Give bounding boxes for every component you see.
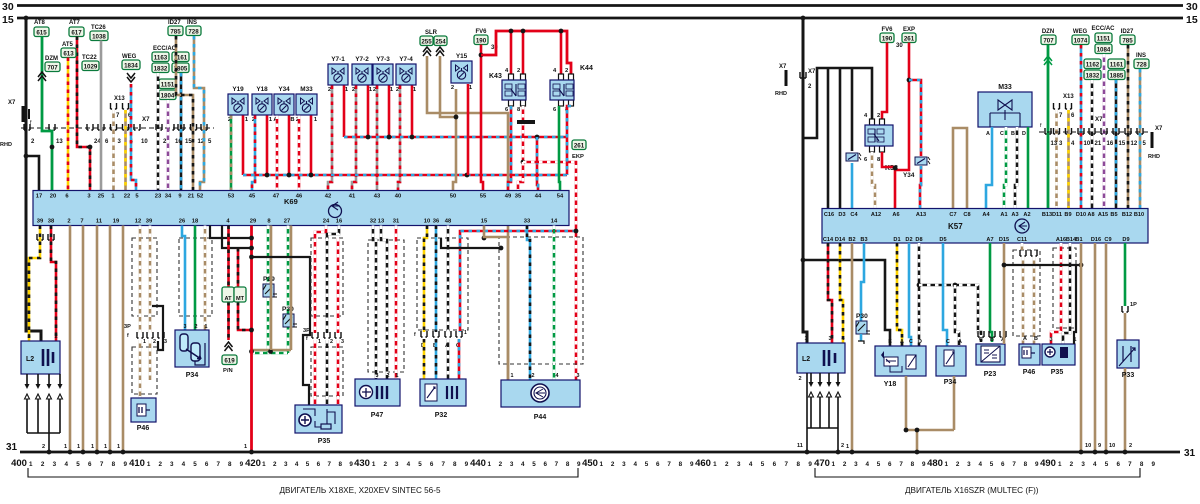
wire tan P29 ground <box>270 226 273 351</box>
svg-text:32: 32 <box>370 219 376 225</box>
svg-text:E: E <box>888 339 892 345</box>
wire black-cyan ECC to K69-9 <box>180 73 183 191</box>
svg-text:13: 13 <box>1051 141 1058 147</box>
svg-text:2: 2 <box>387 373 390 379</box>
svg-text:B9: B9 <box>1064 212 1071 218</box>
node junction EXP branch <box>907 78 912 83</box>
wire black to diode <box>851 68 854 151</box>
svg-text:3: 3 <box>1050 337 1053 343</box>
svg-text:AT5: AT5 <box>62 42 74 48</box>
svg-text:1: 1 <box>91 444 94 450</box>
svg-text:10: 10 <box>1109 443 1115 449</box>
wire tan-cyan INS to B10 <box>1139 69 1142 209</box>
svg-text:617: 617 <box>71 29 82 36</box>
svg-text:C16: C16 <box>824 212 834 218</box>
node junction ground 4 <box>108 450 113 455</box>
connector X7 dashed line left <box>21 127 214 129</box>
svg-text:1: 1 <box>143 339 146 345</box>
shielded cable P34 left <box>179 238 212 316</box>
svg-text:P35: P35 <box>1051 369 1064 376</box>
shielded cable P35 upper <box>311 238 343 316</box>
svg-text:2: 2 <box>273 461 277 468</box>
svg-text:12: 12 <box>135 219 141 225</box>
svg-text:WEG: WEG <box>122 54 137 60</box>
svg-text:430: 430 <box>354 458 370 469</box>
wire black-white K69-16 to P35 <box>327 226 339 334</box>
label box ECC 1832r <box>1084 70 1101 80</box>
wire green AT8 to K69-20 <box>42 37 52 192</box>
wire green K69-18 to P34-2 <box>194 226 197 331</box>
wire green-white K69-27 P30 <box>287 226 290 354</box>
pin symbols below K69 left <box>37 234 54 240</box>
wire gray-red Y7-1 to K69-42 <box>328 86 332 192</box>
wire gray TC26 to K69-25 <box>100 41 103 192</box>
arrow down WEG <box>127 73 135 82</box>
svg-text:A8: A8 <box>1087 212 1094 218</box>
svg-text:AT8: AT8 <box>34 20 46 26</box>
label box FV6 190 <box>474 35 488 45</box>
svg-text:4: 4 <box>749 461 753 468</box>
label box FV6 right <box>880 33 894 43</box>
svg-text:P33: P33 <box>1122 372 1135 379</box>
wire blue-red Y18-2 to K69-45 <box>252 116 255 192</box>
shielded cable P46 lower <box>132 347 157 394</box>
svg-text:21: 21 <box>188 194 195 200</box>
svg-text:B: B <box>290 117 294 123</box>
wire yellow-black to P32 box <box>423 339 426 379</box>
svg-text:440: 440 <box>470 458 486 469</box>
node junction red MT <box>249 328 254 333</box>
svg-text:D3: D3 <box>838 212 845 218</box>
wire red-white Y34-A to K69-47 <box>276 116 279 192</box>
svg-text:Y7-1: Y7-1 <box>331 56 345 63</box>
node junction tan right c <box>915 450 920 455</box>
svg-text:33: 33 <box>524 219 531 225</box>
svg-text:785: 785 <box>170 28 181 35</box>
wire red-white to P35 box b <box>337 340 340 405</box>
wire red-white K43-8 net <box>522 106 525 162</box>
svg-text:44: 44 <box>535 194 542 200</box>
svg-text:3: 3 <box>284 461 288 468</box>
svg-text:2: 2 <box>565 68 568 74</box>
svg-text:9: 9 <box>465 461 469 468</box>
svg-text:P/N: P/N <box>223 368 233 374</box>
svg-text:52: 52 <box>197 194 203 200</box>
svg-text:4: 4 <box>295 461 299 468</box>
label box ECC 1084 <box>1095 44 1112 54</box>
svg-text:3: 3 <box>737 461 741 468</box>
svg-text:D5: D5 <box>939 237 946 243</box>
wire green K44-6 to K69-54 <box>559 106 560 191</box>
svg-text:5: 5 <box>1105 461 1109 468</box>
svg-text:X7: X7 <box>1155 126 1163 132</box>
svg-text:C14: C14 <box>823 237 834 243</box>
svg-text:1: 1 <box>29 461 33 468</box>
svg-text:2: 2 <box>611 461 615 468</box>
svg-text:39: 39 <box>37 219 44 225</box>
wire black-white K69-48 P32-A <box>447 226 450 333</box>
wire red-blue Y34 to K57-A13 <box>920 166 921 209</box>
svg-text:31: 31 <box>393 219 400 225</box>
wire black-white B14 to P35r-2 <box>1063 243 1070 344</box>
svg-text:1: 1 <box>372 461 376 468</box>
svg-text:6: 6 <box>317 461 321 468</box>
wire black-white ECC to K69-23 <box>157 73 160 191</box>
wire red Y19-1 to rail <box>242 116 245 176</box>
svg-text:1151: 1151 <box>1097 35 1111 42</box>
relay K58 <box>865 119 893 152</box>
svg-text:3: 3 <box>828 336 831 342</box>
svg-text:2: 2 <box>725 461 729 468</box>
svg-text:15: 15 <box>1119 141 1126 147</box>
bus 30 top <box>17 4 1183 7</box>
node junction rail137 x368 <box>366 135 371 140</box>
wire purple-white ECC to A15 <box>1103 54 1106 209</box>
svg-text:1: 1 <box>39 334 42 340</box>
wire tan ground 4 to bus31 <box>109 226 112 453</box>
wire tan-white 3P-1 to P46 <box>139 340 142 399</box>
svg-text:P32: P32 <box>435 412 448 419</box>
EGR valve Y18 right <box>875 339 926 376</box>
label box ECC 1805 <box>172 63 189 73</box>
node junction B2 ground <box>850 450 855 455</box>
svg-text:P44: P44 <box>534 414 547 421</box>
wire blue-red feed P32-C <box>460 231 576 332</box>
svg-text:2: 2 <box>328 87 331 93</box>
label box ECC 1161 <box>172 52 189 62</box>
wire tan-white K58-6 to A12 <box>872 152 875 209</box>
svg-text:30: 30 <box>1186 1 1198 13</box>
node junction red row1 <box>249 236 254 241</box>
svg-text:6: 6 <box>1116 461 1120 468</box>
arrow up DZN <box>1044 56 1052 65</box>
wire tan-white to P34-1 <box>204 226 207 331</box>
svg-text:1074: 1074 <box>1074 37 1088 44</box>
svg-text:420: 420 <box>245 458 261 469</box>
svg-text:25: 25 <box>98 194 105 200</box>
arrow up SLR1 <box>423 47 431 56</box>
svg-text:RHD: RHD <box>0 142 12 148</box>
wire gray-red Y7-2 to K69-41 <box>352 86 356 192</box>
sensor P34 left <box>175 324 209 367</box>
node junction FV6 tap <box>479 53 484 58</box>
svg-text:2: 2 <box>383 461 387 468</box>
wire tan P30 ground <box>290 226 293 351</box>
svg-text:AT7: AT7 <box>69 20 81 26</box>
label box SLR 254 <box>434 36 447 46</box>
wire black-white D8 to Y18-D <box>918 243 921 346</box>
wire red-white A16 to P35r-3 <box>1051 243 1061 344</box>
svg-text:9: 9 <box>808 461 812 468</box>
wire blue K69-26 to P34-3 <box>182 226 185 331</box>
svg-text:255: 255 <box>421 38 432 45</box>
svg-text:2: 2 <box>843 461 847 468</box>
svg-text:7: 7 <box>1012 461 1016 468</box>
wire tan-black ID27 to B12 <box>1127 45 1130 209</box>
wire yellow-black K69-10 P32-D <box>424 226 427 333</box>
wire red-white fuel pump feed <box>523 162 576 381</box>
svg-text:53: 53 <box>228 194 235 200</box>
svg-text:3: 3 <box>1081 461 1085 468</box>
svg-text:2: 2 <box>42 444 45 450</box>
wire tan ground 2 to bus31 <box>82 226 85 453</box>
stub connector P30 <box>858 341 864 344</box>
svg-text:1: 1 <box>945 461 949 468</box>
svg-text:SLR: SLR <box>425 30 438 36</box>
svg-text:261: 261 <box>574 142 585 149</box>
svg-text:1: 1 <box>846 444 849 450</box>
svg-text:C: C <box>909 339 913 345</box>
label box DZN 707 <box>1041 35 1056 45</box>
wire blue-red WEG to K69-5 <box>131 84 136 191</box>
svg-text:3: 3 <box>376 373 379 379</box>
svg-text:X13: X13 <box>114 96 125 102</box>
relay K44 <box>550 74 574 106</box>
svg-text:EXP: EXP <box>903 27 915 33</box>
svg-text:10: 10 <box>424 219 430 225</box>
wire red K43-4 up <box>510 31 513 74</box>
svg-text:A7: A7 <box>986 237 993 243</box>
shielded cable P46 upper <box>132 238 157 316</box>
connector X7 dashed line right <box>1039 131 1148 133</box>
svg-text:9: 9 <box>1098 443 1101 449</box>
wire tan-yellow X13r to B9 <box>1067 110 1070 209</box>
wire blue B3 to P30 <box>861 243 864 321</box>
wire tan-white K69-39 to 3P-2 <box>149 226 152 334</box>
solenoid valve Y7-2 <box>352 56 373 93</box>
wire blue diode to K57-C4 <box>851 163 854 209</box>
svg-text:10: 10 <box>1085 443 1091 449</box>
svg-text:23: 23 <box>155 194 162 200</box>
wire tan D16 to bus31 <box>1094 243 1097 452</box>
wire red K43-2 up <box>522 31 525 74</box>
solenoid valve Y18 <box>252 86 273 123</box>
svg-text:1029: 1029 <box>84 63 98 70</box>
solenoid valve Y7-4 <box>396 56 417 93</box>
solenoid valve Y15 <box>451 53 473 91</box>
connector X7 symbol far right <box>1148 126 1163 160</box>
svg-text:7: 7 <box>216 461 220 468</box>
svg-text:M33: M33 <box>300 86 313 93</box>
svg-text:2: 2 <box>517 68 520 74</box>
svg-text:18: 18 <box>192 219 199 225</box>
wire blue-red K43-6 to K69-49 <box>508 106 511 191</box>
svg-text:43: 43 <box>374 194 381 200</box>
arrow up SLR2 <box>436 47 444 56</box>
node junction rail175 x467 <box>465 173 470 178</box>
svg-text:1: 1 <box>117 444 120 450</box>
diagnostic plug P46 right <box>1019 336 1040 365</box>
svg-text:3: 3 <box>395 461 399 468</box>
wire red-black K69-4 via AT <box>227 226 230 288</box>
svg-text:15: 15 <box>481 219 488 225</box>
svg-text:P34: P34 <box>944 379 957 386</box>
arrow up P/N <box>225 342 233 351</box>
svg-text:A: A <box>986 131 990 137</box>
wire blue-red rail to K69-44 <box>537 137 538 191</box>
svg-text:3: 3 <box>53 461 57 468</box>
wire tan-white pair b <box>1033 257 1036 344</box>
symbol diode Y34 right <box>915 157 930 165</box>
svg-text:8: 8 <box>911 461 915 468</box>
wire tan B2 to bus31 <box>851 243 854 452</box>
svg-text:5: 5 <box>193 461 197 468</box>
svg-text:ECC/AC: ECC/AC <box>1091 26 1115 32</box>
wire green-white M33-C to A1 <box>1004 127 1006 209</box>
svg-text:21: 21 <box>1095 141 1102 147</box>
svg-text:3: 3 <box>170 461 174 468</box>
connector X7 bracket right <box>800 69 816 90</box>
svg-text:6: 6 <box>430 461 434 468</box>
svg-text:B: B <box>1034 336 1038 342</box>
solenoid valve M33 <box>296 86 318 123</box>
svg-text:1885: 1885 <box>1110 72 1124 79</box>
wire black branch to K58/K57 <box>803 68 872 138</box>
svg-text:3: 3 <box>27 334 30 340</box>
svg-text:8: 8 <box>338 461 342 468</box>
label box INS <box>186 26 201 36</box>
svg-text:A12: A12 <box>871 212 881 218</box>
svg-text:P29: P29 <box>263 276 275 283</box>
node junction bus15 left <box>24 16 29 21</box>
label box TC22 <box>82 61 99 71</box>
svg-text:2: 2 <box>41 461 45 468</box>
svg-text:9: 9 <box>922 461 926 468</box>
svg-text:2: 2 <box>373 87 376 93</box>
svg-text:X13: X13 <box>1063 94 1074 100</box>
svg-text:3: 3 <box>341 339 344 345</box>
control unit P35 right <box>1042 337 1077 365</box>
svg-text:5: 5 <box>877 461 881 468</box>
svg-text:38: 38 <box>48 219 55 225</box>
svg-text:Y7-2: Y7-2 <box>355 56 369 63</box>
svg-text:Y7-4: Y7-4 <box>399 56 413 63</box>
svg-text:AT: AT <box>224 296 232 302</box>
wire tan P34r ground a <box>953 376 956 430</box>
svg-text:4: 4 <box>978 461 982 468</box>
node junction link tan <box>1079 263 1084 268</box>
node junction P33 ground <box>1123 450 1128 455</box>
svg-text:55: 55 <box>480 194 487 200</box>
jumper bar K43-8 <box>517 120 535 124</box>
node junction D16 ground <box>1093 450 1098 455</box>
svg-text:RHD: RHD <box>775 91 787 97</box>
wire black-white to P34r-A <box>955 285 959 346</box>
svg-text:2: 2 <box>67 219 70 225</box>
svg-text:785: 785 <box>1122 37 1133 44</box>
wire tan ground merge right <box>906 429 954 432</box>
svg-text:728: 728 <box>188 28 199 35</box>
node junction K43-4 bus <box>509 29 514 34</box>
svg-text:A16: A16 <box>1056 237 1066 243</box>
node junction L2r ground <box>805 450 810 455</box>
svg-text:X7: X7 <box>142 116 150 123</box>
wire red Y15-1 to rail <box>467 84 470 175</box>
svg-text:L2: L2 <box>802 356 810 363</box>
wire black link to P35r-1 <box>1074 265 1076 344</box>
svg-text:707: 707 <box>47 64 58 71</box>
svg-text:2: 2 <box>532 373 535 379</box>
svg-text:410: 410 <box>129 458 145 469</box>
svg-text:6: 6 <box>773 461 777 468</box>
svg-text:A: A <box>958 339 962 345</box>
svg-text:7: 7 <box>441 461 445 468</box>
svg-text:D2: D2 <box>905 237 912 243</box>
label box AT <box>222 287 234 302</box>
svg-text:11: 11 <box>96 219 103 225</box>
svg-text:X7: X7 <box>779 64 787 70</box>
capacitor P33 <box>1117 340 1139 368</box>
svg-text:3P: 3P <box>303 328 310 334</box>
svg-text:8: 8 <box>566 461 570 468</box>
svg-text:254: 254 <box>435 38 446 45</box>
svg-text:2: 2 <box>195 324 198 330</box>
label box ECC 1832 <box>152 63 169 73</box>
node junction shield link <box>499 246 504 251</box>
wire tan-cyan INS to K69-52 <box>194 36 204 191</box>
label box INS 728r <box>1134 59 1149 69</box>
svg-text:261: 261 <box>904 35 915 42</box>
wire red-white to P35 box a <box>314 340 317 405</box>
svg-text:P46: P46 <box>1023 369 1036 376</box>
svg-text:6: 6 <box>88 461 92 468</box>
svg-text:ДВИГАТЕЛЬ X16SZR (MULTEC (F)): ДВИГАТЕЛЬ X16SZR (MULTEC (F)) <box>905 486 1039 495</box>
svg-text:TC22: TC22 <box>82 55 97 61</box>
svg-text:17: 17 <box>36 194 42 200</box>
wire red K69-29 to bus31 <box>250 226 253 453</box>
connector 3P at P35 <box>303 328 344 345</box>
svg-text:8: 8 <box>453 461 457 468</box>
node junction X7-2 split <box>24 154 29 159</box>
wire tan-white C11 to P46r-A <box>1021 243 1024 250</box>
wire tan ground 1 to bus31 <box>69 226 72 453</box>
wire red-white right to P35 <box>337 238 340 333</box>
svg-text:1084: 1084 <box>1097 46 1111 53</box>
svg-text:P23: P23 <box>984 371 997 378</box>
svg-text:DZM: DZM <box>45 56 58 62</box>
node junction P34r tap <box>953 283 958 288</box>
svg-text:9: 9 <box>349 461 353 468</box>
svg-text:Y15: Y15 <box>456 53 468 60</box>
connector pins P32 <box>414 330 467 349</box>
wire tan D15 to P23-A <box>1003 243 1006 344</box>
svg-text:3: 3 <box>622 461 626 468</box>
node junction ground 5 <box>121 450 126 455</box>
svg-text:4: 4 <box>633 461 637 468</box>
wire green-tan Y19-2 to K69-53 <box>230 116 233 192</box>
svg-text:13: 13 <box>378 219 385 225</box>
label box TC26 <box>90 31 108 41</box>
svg-text:1P: 1P <box>1130 302 1137 308</box>
node junction K43-8 split <box>521 160 526 165</box>
svg-text:X7: X7 <box>8 100 16 106</box>
svg-text:1: 1 <box>600 461 604 468</box>
label box SLR 255 <box>420 36 433 46</box>
connector 3P left <box>124 324 167 345</box>
svg-text:RHD: RHD <box>1148 154 1160 160</box>
label box ECC 1162 <box>1084 59 1101 69</box>
svg-text:3: 3 <box>577 373 580 379</box>
connector X13 right <box>1054 94 1076 119</box>
relay K43 <box>502 74 526 106</box>
svg-text:EKP: EKP <box>572 154 584 160</box>
label box WEG <box>122 60 140 70</box>
node junction B1 ground <box>1079 450 1084 455</box>
svg-text:C9: C9 <box>1104 237 1111 243</box>
node junction red row2 <box>249 246 254 251</box>
arrow up on green wire <box>38 72 46 81</box>
svg-text:D: D <box>918 339 922 345</box>
